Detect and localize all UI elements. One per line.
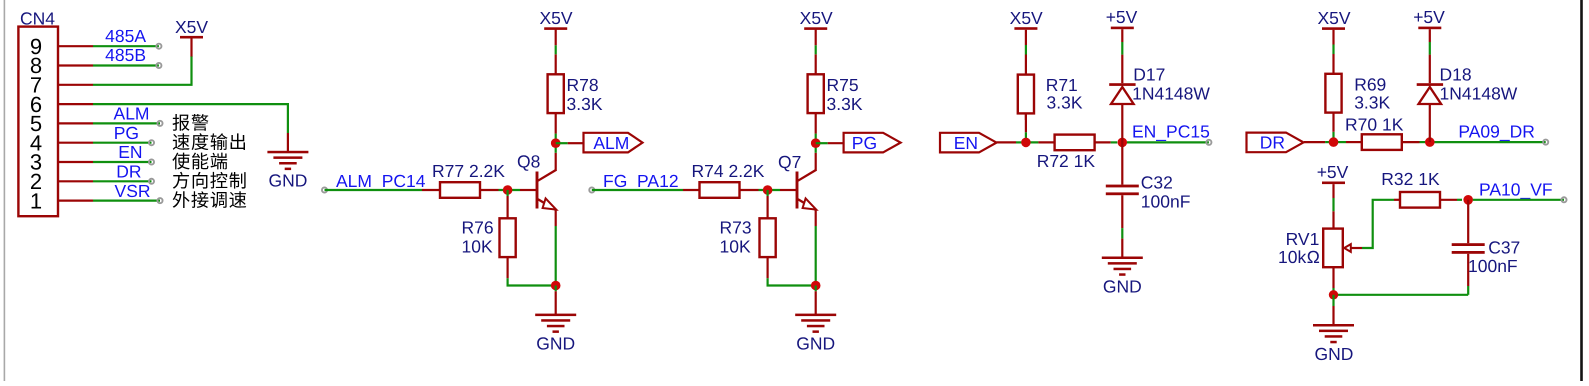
transistor Q8 — [517, 152, 557, 210]
svg-text:3.3K: 3.3K — [1047, 92, 1083, 112]
junction Q8 ground — [551, 281, 561, 292]
port PG — [844, 133, 901, 153]
wire 485 pin 9 — [93, 44, 161, 49]
wire to ALM port — [556, 142, 568, 144]
junction Q7 base — [759, 185, 781, 195]
port ALM — [584, 133, 643, 153]
svg-text:+5V: +5V — [1317, 162, 1349, 182]
svg-text:R75: R75 — [827, 75, 859, 95]
svg-text:RV1: RV1 — [1286, 229, 1320, 249]
svg-text:VSR: VSR — [115, 181, 151, 201]
wire Q7 emitter — [815, 209, 817, 226]
svg-text:C37: C37 — [1488, 238, 1520, 258]
svg-text:R32 1K: R32 1K — [1381, 169, 1440, 189]
wire Q7 collector — [815, 153, 817, 170]
svg-text:DR: DR — [1260, 133, 1285, 153]
svg-text:X5V: X5V — [1317, 8, 1350, 28]
junction Q7 ground — [811, 281, 821, 292]
svg-text:D18: D18 — [1440, 64, 1472, 84]
svg-text:R73: R73 — [720, 218, 752, 238]
svg-text:100nF: 100nF — [1468, 256, 1518, 276]
power +5V (D17) — [1106, 7, 1138, 29]
svg-text:Q8: Q8 — [517, 152, 540, 172]
wire R73 to emitter — [768, 278, 813, 285]
svg-text:PA09_DR: PA09_DR — [1458, 121, 1535, 141]
svg-text:R72 1K: R72 1K — [1037, 151, 1096, 171]
svg-text:GND: GND — [1315, 344, 1354, 364]
wire ALM — [93, 121, 163, 126]
capacitor C32 100nF — [1106, 142, 1191, 257]
svg-text:ALM: ALM — [114, 104, 150, 124]
wire 485 pin 8 — [93, 63, 161, 68]
svg-text:EN: EN — [118, 142, 142, 162]
svg-text:10K: 10K — [462, 237, 493, 257]
CN4 pin 7 — [30, 73, 93, 98]
wire pin7 to X5V — [93, 56, 192, 85]
junction PA10_VF — [1463, 195, 1473, 205]
resistor R76 10K — [462, 190, 516, 278]
diode D18 1N4148W — [1417, 29, 1518, 142]
svg-text:PA10_VF: PA10_VF — [1479, 180, 1553, 200]
svg-text:X5V: X5V — [1010, 8, 1043, 28]
power X5V (Q8) — [539, 8, 572, 30]
svg-text:R78: R78 — [567, 75, 599, 95]
wire VSR — [93, 198, 163, 203]
power X5V (CN4) — [175, 17, 208, 39]
CN4 pin 8 — [30, 53, 93, 78]
wire R76 to emitter — [508, 278, 553, 285]
svg-text:R70 1K: R70 1K — [1345, 114, 1404, 134]
connector CN4 — [18, 9, 58, 217]
svg-text:+5V: +5V — [1413, 7, 1445, 27]
svg-text:1N4148W: 1N4148W — [1440, 83, 1518, 103]
potentiometer RV1 10kΩ — [1278, 229, 1362, 268]
wire PA10_VF — [1473, 197, 1567, 202]
junction DR — [1329, 132, 1346, 147]
svg-text:GND: GND — [536, 333, 575, 353]
transistor Q7 — [778, 152, 817, 210]
diode D17 1N4148W — [1109, 29, 1210, 142]
power X5V (DR) — [1317, 8, 1350, 30]
svg-text:3.3K: 3.3K — [567, 94, 603, 114]
svg-text:R77 2.2K: R77 2.2K — [432, 161, 505, 181]
wire C37 to RV1 bottom — [1338, 294, 1468, 296]
svg-text:X5V: X5V — [800, 8, 833, 28]
svg-text:GND: GND — [1103, 276, 1142, 296]
wire FG_PA12 — [589, 187, 683, 192]
svg-text:GND: GND — [268, 171, 307, 191]
wire DR port to junction — [1304, 141, 1325, 143]
svg-text:+5V: +5V — [1106, 7, 1138, 27]
power +5V (D18) — [1413, 7, 1445, 29]
wire RV1 bottom — [1332, 267, 1334, 288]
svg-text:1N4148W: 1N4148W — [1132, 83, 1210, 103]
ground (CN4) — [267, 151, 308, 191]
annotation 外接调速 — [173, 191, 247, 208]
power X5V (Q7) — [800, 8, 833, 30]
junction EN_PC15 — [1118, 138, 1128, 148]
junction RV1 ground — [1329, 290, 1338, 306]
wire +5V to RV1 — [1332, 184, 1334, 198]
svg-text:Ω: Ω — [1307, 247, 1320, 267]
svg-text:3.3K: 3.3K — [1354, 93, 1390, 113]
svg-text:485B: 485B — [105, 45, 146, 65]
capacitor C37 100nF — [1452, 200, 1521, 295]
annotation 使能端 — [172, 153, 227, 170]
CN4 pin 9 — [30, 34, 93, 59]
wire PA09_DR — [1435, 140, 1549, 145]
CN4 pin 3 — [30, 150, 93, 175]
svg-text:100nF: 100nF — [1141, 191, 1191, 211]
power X5V (EN) — [1010, 8, 1043, 30]
wire Q8 emitter — [555, 209, 557, 226]
ground (Q8) — [535, 291, 576, 353]
wire RV1 wiper to R32 — [1362, 200, 1394, 248]
junction PA09_DR — [1425, 137, 1435, 147]
CN4 pin 4 — [30, 130, 93, 155]
wire ALM_PC14 — [322, 187, 422, 192]
svg-text:EN: EN — [954, 133, 978, 153]
wire DR — [93, 179, 154, 184]
CN4 pin 2 — [30, 169, 93, 194]
svg-text:X5V: X5V — [539, 8, 572, 28]
svg-text:R69: R69 — [1354, 75, 1386, 95]
resistor R74 2.2K — [683, 161, 765, 198]
svg-text:R76: R76 — [462, 218, 494, 238]
port EN — [940, 133, 997, 153]
svg-text:EN_PC15: EN_PC15 — [1132, 122, 1210, 142]
svg-text:GND: GND — [796, 333, 835, 353]
resistor R32 1K — [1381, 169, 1462, 208]
resistor R78 3.3K — [548, 30, 603, 139]
svg-text:1: 1 — [30, 188, 42, 213]
svg-text:C32: C32 — [1141, 173, 1173, 193]
svg-text:PG: PG — [852, 133, 877, 153]
wire PG — [93, 140, 154, 145]
power +5V (RV1) — [1317, 162, 1349, 184]
junction Q8 collector — [551, 138, 561, 148]
CN4 pin 6 — [30, 92, 93, 117]
annotation 速度输出 — [173, 133, 245, 150]
annotation 方向控制 — [173, 172, 246, 189]
resistor R72 1K — [1037, 135, 1118, 171]
svg-text:Q7: Q7 — [778, 152, 801, 172]
resistor R70 1K — [1345, 114, 1425, 150]
svg-text:FG_PA12: FG_PA12 — [603, 171, 679, 191]
svg-text:10K: 10K — [720, 237, 751, 257]
wire pin6 to GND — [93, 104, 288, 133]
resistor R69 3.3K — [1325, 30, 1390, 132]
junction EN — [1021, 132, 1038, 147]
resistor R71 3.3K — [1018, 30, 1083, 132]
svg-text:ALM: ALM — [593, 133, 629, 153]
wire to PG port — [816, 142, 828, 144]
wire EN port to junction — [997, 141, 1017, 143]
svg-text:DR: DR — [116, 162, 141, 182]
svg-text:ALM_PC14: ALM_PC14 — [336, 171, 426, 191]
svg-text:3.3K: 3.3K — [827, 94, 863, 114]
svg-text:R74 2.2K: R74 2.2K — [692, 161, 765, 181]
wire Q8 collector — [555, 153, 557, 170]
junction Q7 collector — [811, 138, 821, 148]
CN4 pin 1 — [30, 188, 93, 213]
svg-text:10k: 10k — [1278, 247, 1306, 267]
ground (Q7) — [795, 291, 836, 353]
junction Q8 base — [499, 185, 521, 195]
resistor R75 3.3K — [808, 30, 863, 139]
port DR — [1247, 133, 1304, 153]
wire EN — [93, 159, 154, 164]
wire EN_PC15 — [1127, 140, 1211, 145]
svg-text:X5V: X5V — [175, 17, 208, 37]
resistor R73 10K — [720, 190, 776, 278]
CN4 pin 5 — [30, 111, 93, 136]
svg-text:D17: D17 — [1133, 64, 1165, 84]
svg-text:485A: 485A — [105, 26, 146, 46]
ground (RV1) — [1313, 306, 1354, 364]
ground (C32) — [1102, 257, 1143, 297]
annotation 报警 — [173, 114, 209, 131]
resistor R77 2.2K — [422, 161, 505, 198]
svg-text:PG: PG — [114, 123, 139, 143]
